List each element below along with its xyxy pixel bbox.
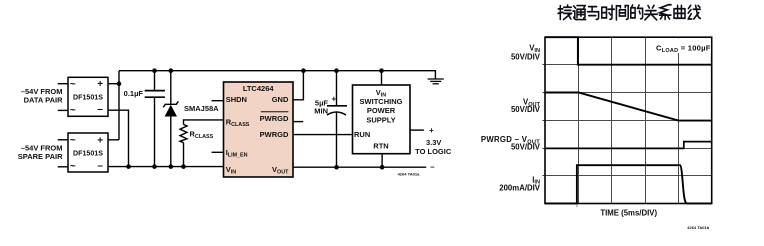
bridge rectifier BR1 DF1501S	[68, 77, 108, 116]
svg-text:LTC4264: LTC4264	[243, 84, 275, 93]
trace IIN	[545, 165, 712, 203]
char jie	[558, 5, 572, 20]
resistor R1 RCLASS	[180, 120, 224, 167]
junction dot positive join	[117, 81, 122, 86]
junction dot D1 bottom	[169, 164, 174, 169]
label -54V FROM DATA PAIR	[21, 87, 63, 105]
chart label PWRGD-VOUT	[481, 135, 541, 152]
trace PWRGD-VOUT	[545, 142, 712, 149]
svg-text:+: +	[97, 135, 103, 146]
wire riser to top rail	[118, 71, 120, 140]
svg-text:~: ~	[70, 105, 76, 116]
U2 labels	[354, 88, 403, 151]
svg-text:RTN: RTN	[373, 142, 388, 151]
svg-text:~: ~	[70, 161, 76, 172]
capacitor C1 0.1uF	[145, 71, 165, 167]
chart label VOUT	[511, 98, 541, 115]
junction dot C1 top	[152, 68, 157, 73]
svg-text:–: –	[97, 104, 103, 115]
wire PWRGD to RUN	[293, 134, 353, 136]
svg-text:+: +	[429, 126, 434, 135]
scope grid	[545, 37, 712, 203]
pin stub ILIM_EN	[212, 151, 224, 153]
svg-text:4264 TA01a: 4264 TA01a	[398, 171, 420, 176]
trace VOUT	[545, 93, 712, 121]
trace VIN	[545, 37, 712, 64]
svg-text:SUPPLY: SUPPLY	[366, 115, 395, 124]
wire BR1 input stub top	[58, 83, 68, 85]
chart title (Chinese)	[558, 5, 700, 20]
svg-text:+: +	[97, 79, 103, 90]
junction dot RTN rail	[380, 165, 385, 170]
svg-text:+: +	[332, 95, 337, 104]
junction dot U2 VIN	[379, 68, 384, 73]
junction dot D1 top	[169, 68, 174, 73]
svg-text:~: ~	[70, 79, 76, 90]
bridge BR1 labels	[70, 79, 104, 116]
junction dot BR1 minus to rail	[126, 164, 131, 169]
wire bottom -54V rail	[108, 166, 224, 168]
label 5uF MIN plus	[314, 95, 336, 116]
char shi	[602, 5, 615, 19]
wire BR1 + output to riser	[108, 83, 120, 85]
char xian	[688, 5, 700, 19]
svg-text:4264 TA01b: 4264 TA01b	[687, 225, 709, 230]
chart label IIN	[499, 175, 541, 192]
junction dot R1 bottom	[181, 164, 186, 169]
svg-text:TIME (5ms/DIV): TIME (5ms/DIV)	[600, 209, 657, 218]
svg-text:–: –	[430, 162, 435, 171]
junction dot C1 bottom	[152, 164, 157, 169]
wire BR1 - output down	[108, 110, 129, 166]
char jian	[616, 6, 628, 20]
char guan	[645, 5, 658, 20]
char tong	[573, 6, 586, 20]
svg-text:RCLASS: RCLASS	[190, 130, 214, 141]
TVS diode D1 SMAJ58A	[163, 71, 178, 167]
wire output stub	[410, 129, 424, 131]
svg-text:200mA/DIV: 200mA/DIV	[499, 184, 541, 193]
label +3.3V TO LOGIC	[415, 126, 452, 171]
wire BR2 input stub bottom	[58, 166, 68, 168]
scope border	[545, 37, 712, 203]
label -54V FROM SPARE PAIR	[18, 143, 63, 161]
TVS D1 triangle	[165, 105, 177, 117]
char de	[631, 5, 643, 19]
svg-text:SHDN: SHDN	[226, 95, 247, 104]
wire BR2 input stub top	[58, 139, 68, 141]
svg-text:SWITCHING: SWITCHING	[360, 97, 403, 106]
junction dot GND riser top	[301, 68, 306, 73]
pin stub PWRGDbar	[293, 121, 303, 123]
svg-text:TO LOGIC: TO LOGIC	[415, 147, 452, 156]
wire VOUT rail	[293, 166, 426, 168]
svg-text:PWRGD: PWRGD	[260, 114, 289, 123]
wire BR2 + output to riser	[108, 139, 119, 141]
scope axis ticks left	[542, 65, 545, 176]
capacitor C2 5uF	[327, 71, 347, 168]
ground	[428, 70, 444, 84]
svg-text:50V/DIV: 50V/DIV	[511, 105, 541, 114]
svg-text:DATA PAIR: DATA PAIR	[24, 96, 63, 105]
svg-text:3.3V: 3.3V	[426, 138, 441, 147]
char qu	[674, 5, 685, 18]
label box CLOAD	[646, 38, 711, 53]
switching power supply U2 box	[353, 85, 411, 154]
svg-text:RUN: RUN	[354, 130, 370, 139]
bridge BR2 labels	[70, 135, 104, 172]
svg-text:SMAJ58A: SMAJ58A	[184, 104, 219, 113]
op-amp U1 LTC4264 box	[224, 82, 294, 177]
junction dot C2 top	[334, 68, 339, 73]
svg-text:POWER: POWER	[367, 106, 396, 115]
junction dot C2 bottom	[334, 165, 339, 170]
tick below axis	[576, 205, 578, 208]
svg-text:0.1µF: 0.1µF	[124, 89, 144, 98]
wire top rail	[119, 70, 435, 72]
svg-text:DF1501S: DF1501S	[73, 93, 103, 101]
char xi	[659, 5, 671, 20]
U1 pin label PWRGD overline	[261, 111, 289, 113]
wire BR1 input stub bottom	[58, 109, 68, 111]
svg-text:50V/DIV: 50V/DIV	[511, 52, 541, 61]
svg-text:–: –	[97, 160, 103, 171]
bridge rectifier BR2 DF1501S	[68, 133, 108, 172]
pin stub SHDN	[212, 100, 224, 102]
svg-text:GND: GND	[272, 95, 289, 104]
svg-text:PWRGD: PWRGD	[260, 130, 289, 139]
svg-text:SPARE PAIR: SPARE PAIR	[18, 152, 63, 161]
svg-text:DF1501S: DF1501S	[73, 149, 103, 157]
chart label VIN	[511, 44, 541, 62]
pin stub GND to riser	[293, 71, 303, 100]
char yu	[588, 7, 599, 20]
svg-text:MIN: MIN	[314, 106, 328, 115]
svg-text:50V/DIV: 50V/DIV	[511, 143, 541, 152]
svg-text:~: ~	[70, 135, 76, 146]
wire U2 VIN drop	[381, 71, 383, 85]
wire U2 RTN drop	[381, 154, 383, 168]
